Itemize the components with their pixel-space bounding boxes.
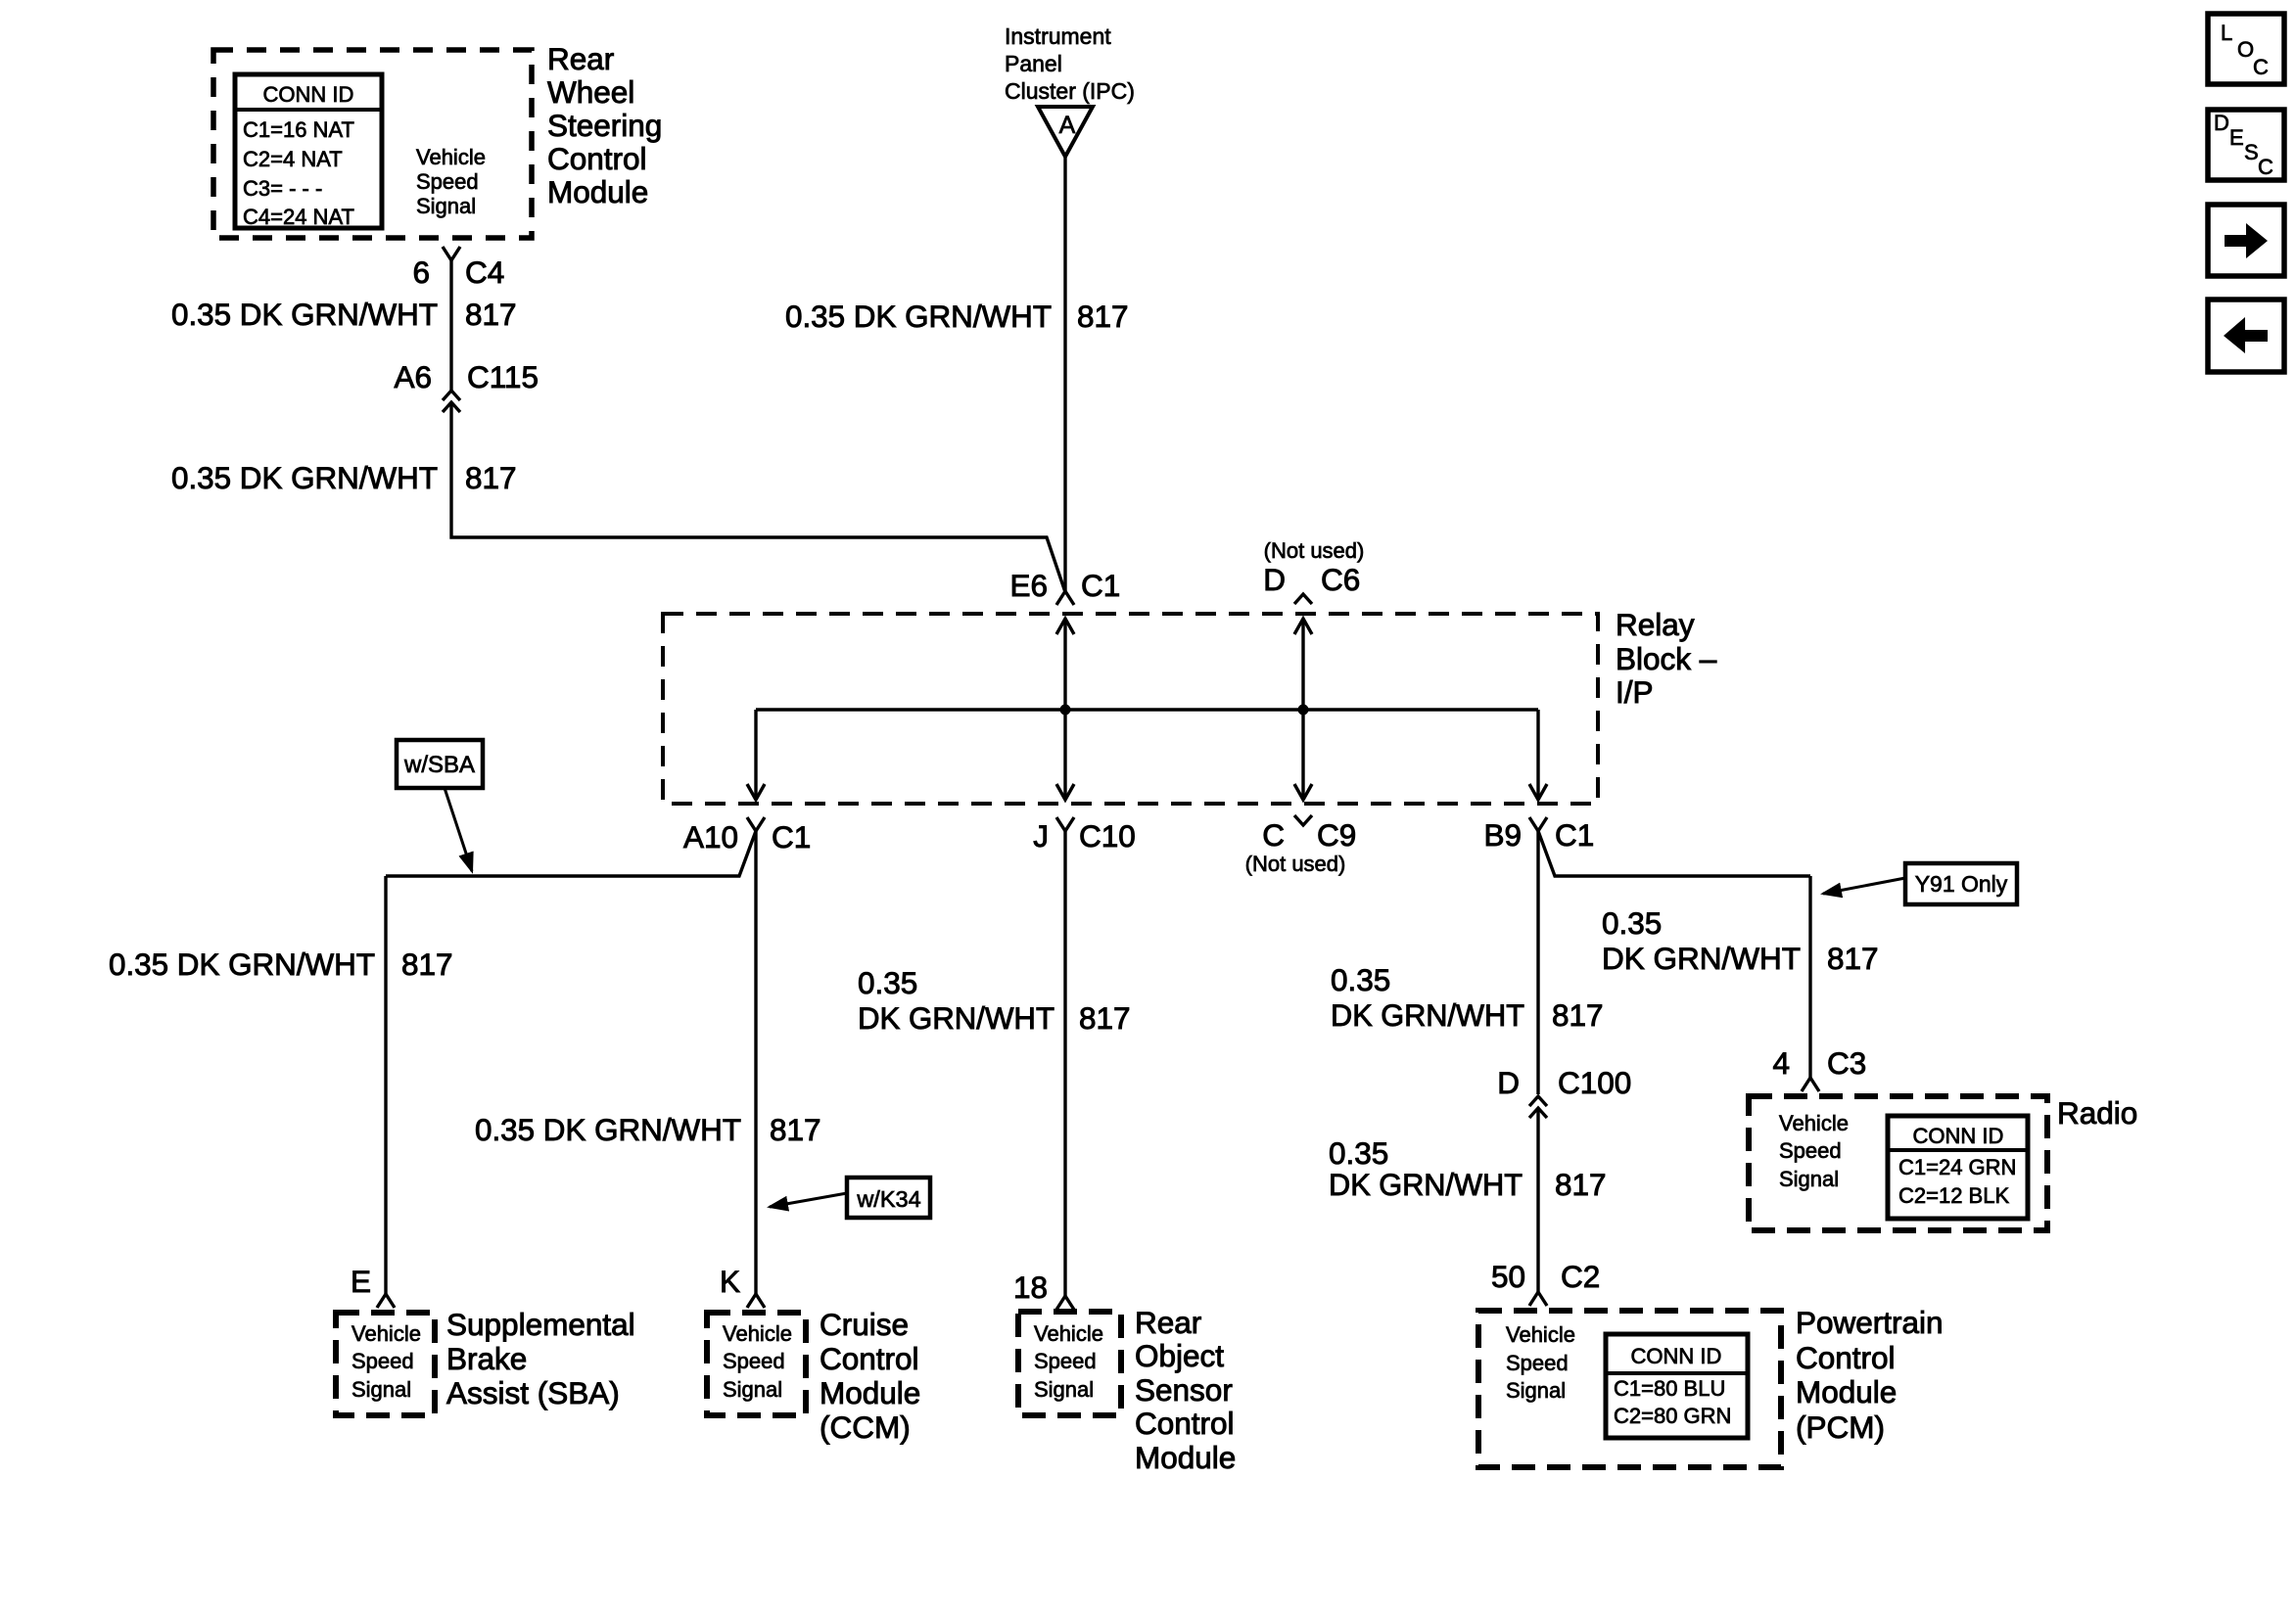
svg-text:C4: C4: [465, 254, 504, 290]
svg-text:A10: A10: [683, 819, 738, 855]
svg-text:Block –: Block –: [1616, 641, 1717, 676]
svg-text:817: 817: [1827, 941, 1879, 976]
svg-text:Y91 Only: Y91 Only: [1915, 871, 2008, 897]
svg-text:C1=80 BLU: C1=80 BLU: [1614, 1376, 1725, 1401]
svg-text:Panel: Panel: [1005, 51, 1062, 76]
svg-text:817: 817: [1079, 1000, 1131, 1036]
svg-text:D: D: [1263, 562, 1286, 597]
svg-text:Vehicle: Vehicle: [1034, 1321, 1103, 1346]
svg-text:Assist (SBA): Assist (SBA): [446, 1375, 620, 1410]
svg-text:C10: C10: [1079, 818, 1136, 854]
svg-text:K: K: [720, 1264, 740, 1299]
svg-text:Module: Module: [547, 174, 648, 209]
svg-text:Vehicle: Vehicle: [416, 145, 486, 169]
svg-text:D: D: [2214, 111, 2229, 135]
svg-text:Cruise: Cruise: [820, 1307, 909, 1342]
svg-text:4: 4: [1772, 1045, 1790, 1081]
svg-text:C2=4 NAT: C2=4 NAT: [243, 147, 343, 171]
svg-text:(Not used): (Not used): [1264, 538, 1365, 563]
svg-text:C6: C6: [1321, 562, 1360, 597]
svg-text:Signal: Signal: [1779, 1167, 1839, 1191]
svg-text:Rear: Rear: [1135, 1305, 1201, 1340]
svg-text:S: S: [2244, 140, 2259, 164]
svg-text:(PCM): (PCM): [1796, 1409, 1885, 1445]
svg-text:Signal: Signal: [351, 1377, 411, 1402]
svg-text:0.35 DK GRN/WHT: 0.35 DK GRN/WHT: [475, 1112, 741, 1147]
svg-text:Control: Control: [547, 141, 647, 176]
svg-text:50: 50: [1491, 1259, 1525, 1294]
svg-text:C3= - - -: C3= - - -: [243, 176, 322, 201]
svg-text:I/P: I/P: [1616, 674, 1654, 710]
svg-text:Speed: Speed: [416, 169, 479, 194]
svg-text:0.35 DK GRN/WHT: 0.35 DK GRN/WHT: [171, 460, 438, 495]
svg-text:E: E: [351, 1264, 371, 1299]
svg-text:0.35 DK GRN/WHT: 0.35 DK GRN/WHT: [785, 299, 1052, 334]
svg-text:C: C: [1262, 817, 1285, 853]
svg-text:Wheel: Wheel: [547, 74, 634, 110]
svg-text:817: 817: [770, 1112, 821, 1147]
svg-text:DK GRN/WHT: DK GRN/WHT: [1602, 941, 1801, 976]
svg-text:Speed: Speed: [1034, 1349, 1097, 1373]
svg-text:Speed: Speed: [351, 1349, 414, 1373]
svg-text:C1: C1: [1555, 817, 1594, 853]
svg-text:Instrument: Instrument: [1005, 23, 1111, 49]
svg-text:DK GRN/WHT: DK GRN/WHT: [858, 1000, 1054, 1036]
svg-text:E6: E6: [1009, 568, 1048, 603]
svg-text:DK GRN/WHT: DK GRN/WHT: [1329, 1167, 1523, 1202]
svg-text:Vehicle: Vehicle: [1506, 1322, 1575, 1347]
svg-text:Signal: Signal: [1506, 1378, 1566, 1403]
svg-text:Signal: Signal: [416, 194, 476, 218]
svg-text:Speed: Speed: [1779, 1138, 1842, 1163]
svg-text:CONN ID: CONN ID: [1631, 1344, 1722, 1368]
svg-text:Cluster (IPC): Cluster (IPC): [1005, 78, 1135, 104]
svg-text:Powertrain: Powertrain: [1796, 1305, 1944, 1340]
svg-text:Control: Control: [1135, 1406, 1235, 1441]
svg-text:Module: Module: [1796, 1374, 1897, 1409]
svg-text:817: 817: [401, 947, 453, 982]
svg-text:Module: Module: [1135, 1440, 1236, 1475]
svg-text:C: C: [2253, 55, 2269, 79]
svg-text:0.35 DK GRN/WHT: 0.35 DK GRN/WHT: [171, 297, 438, 332]
svg-text:C9: C9: [1317, 817, 1356, 853]
svg-text:C4=24 NAT: C4=24 NAT: [243, 205, 354, 229]
svg-text:817: 817: [465, 460, 517, 495]
svg-text:18: 18: [1013, 1270, 1048, 1305]
svg-text:817: 817: [1552, 997, 1604, 1033]
svg-text:Rear: Rear: [547, 41, 614, 76]
svg-text:C3: C3: [1827, 1045, 1866, 1081]
svg-text:817: 817: [1077, 299, 1129, 334]
svg-text:C2=12 BLK: C2=12 BLK: [1898, 1183, 2009, 1208]
svg-text:(Not used): (Not used): [1245, 852, 1346, 876]
svg-text:Steering: Steering: [547, 108, 662, 143]
svg-text:0.35: 0.35: [1602, 905, 1662, 941]
svg-text:C1: C1: [772, 819, 811, 855]
svg-text:CONN ID: CONN ID: [1913, 1124, 2004, 1148]
svg-text:817: 817: [465, 297, 517, 332]
svg-text:Relay: Relay: [1616, 607, 1695, 642]
svg-text:C2=80 GRN: C2=80 GRN: [1614, 1404, 1731, 1428]
svg-text:(CCM): (CCM): [820, 1409, 911, 1445]
svg-text:A6: A6: [394, 359, 432, 394]
svg-text:C115: C115: [467, 359, 539, 394]
svg-text:L: L: [2221, 21, 2232, 45]
svg-text:D: D: [1497, 1065, 1520, 1100]
svg-text:w/K34: w/K34: [856, 1186, 920, 1212]
svg-text:O: O: [2237, 37, 2254, 62]
svg-text:C2: C2: [1561, 1259, 1600, 1294]
svg-text:Module: Module: [820, 1375, 920, 1410]
svg-text:C: C: [2258, 155, 2273, 179]
svg-text:C1: C1: [1081, 568, 1120, 603]
svg-text:C1=16 NAT: C1=16 NAT: [243, 117, 354, 142]
svg-text:C1=24 GRN: C1=24 GRN: [1898, 1155, 2016, 1179]
svg-text:0.35 DK GRN/WHT: 0.35 DK GRN/WHT: [109, 947, 375, 982]
svg-text:CONN ID: CONN ID: [263, 82, 354, 107]
svg-text:817: 817: [1555, 1167, 1607, 1202]
svg-text:w/SBA: w/SBA: [403, 752, 475, 778]
svg-text:0.35: 0.35: [1331, 962, 1390, 997]
svg-text:Vehicle: Vehicle: [351, 1321, 421, 1346]
svg-text:6: 6: [412, 254, 430, 290]
svg-text:DK GRN/WHT: DK GRN/WHT: [1331, 997, 1524, 1033]
svg-text:0.35: 0.35: [858, 965, 917, 1000]
svg-text:Sensor: Sensor: [1135, 1372, 1233, 1408]
svg-text:0.35: 0.35: [1329, 1135, 1388, 1171]
svg-text:J: J: [1033, 818, 1049, 854]
svg-text:C100: C100: [1558, 1065, 1631, 1100]
svg-text:Radio: Radio: [2057, 1095, 2137, 1131]
svg-text:Vehicle: Vehicle: [1779, 1111, 1849, 1135]
svg-text:Signal: Signal: [723, 1377, 782, 1402]
svg-text:B9: B9: [1483, 817, 1522, 853]
svg-text:E: E: [2229, 125, 2244, 150]
svg-text:Vehicle: Vehicle: [723, 1321, 792, 1346]
svg-text:Control: Control: [1796, 1340, 1896, 1375]
svg-text:Signal: Signal: [1034, 1377, 1094, 1402]
svg-text:Supplemental: Supplemental: [446, 1307, 635, 1342]
svg-text:Brake: Brake: [446, 1341, 527, 1376]
svg-text:Speed: Speed: [723, 1349, 785, 1373]
svg-text:A: A: [1059, 112, 1076, 139]
svg-text:Speed: Speed: [1506, 1351, 1569, 1375]
svg-text:Object: Object: [1135, 1338, 1224, 1373]
svg-text:Control: Control: [820, 1341, 919, 1376]
